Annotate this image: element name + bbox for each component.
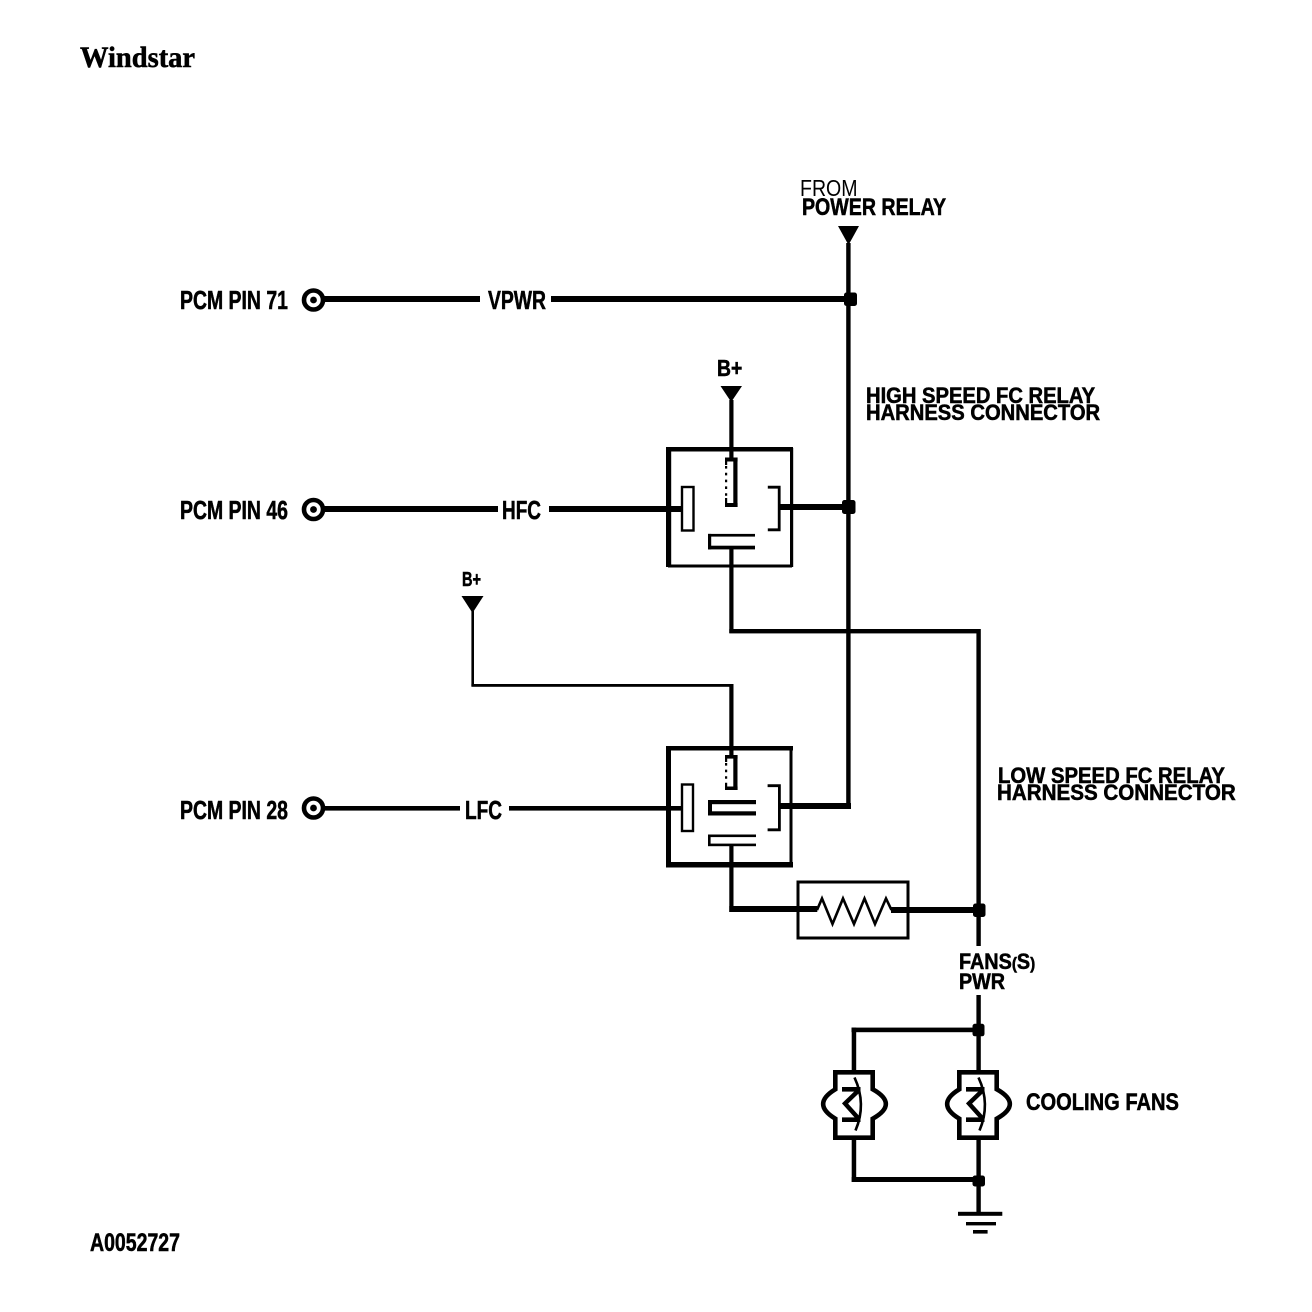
relay K1 left pin (HFC input) — [682, 487, 694, 531]
terminal: PCM PIN 46 center dot — [310, 506, 317, 513]
relay K2 left pin (LFC input) — [682, 785, 693, 832]
wire: B+ thin stem down — [471, 611, 474, 686]
resistor R1 box — [798, 882, 908, 938]
relay K1 right pin bracket — [768, 487, 779, 530]
wire: fans top horizontal — [852, 1028, 980, 1033]
label: VPWR — [488, 287, 546, 313]
label: PCM PIN 46 — [180, 497, 288, 523]
wire: LFC right segment into relay — [509, 806, 683, 811]
node: FANS PWR junction dot — [973, 904, 986, 918]
wire: relay K2 output to main vertical — [779, 803, 851, 809]
wire: main vertical HFC node down to low-speed relay — [846, 507, 850, 809]
wire: FANS PWR down (above label) — [976, 913, 980, 946]
label: HIGH SPEED FC RELAY — [866, 385, 1095, 407]
label: B+ (high speed) — [717, 357, 742, 380]
wire: fan M1 feed — [852, 1028, 857, 1071]
terminal: PCM PIN 71 ring — [304, 291, 323, 310]
label: A0052727 — [90, 1231, 180, 1256]
motor M2: right cooling fan — [947, 1072, 1010, 1137]
wire: resistor output to FANS PWR node — [891, 907, 979, 913]
motor M1: left cooling fan — [823, 1072, 886, 1137]
wire: main vertical VPWR node to HFC node — [846, 299, 850, 508]
power feed arrow (from power relay) — [838, 226, 859, 245]
relay K2 coil pin (dotted hidden side) — [725, 755, 738, 790]
label: FROM — [800, 177, 858, 200]
wire: HFC right segment into relay — [549, 506, 683, 512]
wire: into resistor — [729, 906, 817, 912]
node: fans split junction dot — [973, 1024, 985, 1037]
motor M2 winding M — [966, 1087, 985, 1122]
terminal: PCM PIN 28 ring — [304, 799, 323, 818]
node: HFC relay junction dot — [842, 500, 856, 514]
label: B+ (low speed) — [462, 570, 481, 590]
B+ arrow (high speed relay coil) — [721, 386, 743, 402]
label: FANS(S) — [959, 951, 1035, 973]
terminal: PCM PIN 28 center dot — [310, 805, 317, 812]
wire: VPWR left segment — [323, 296, 480, 302]
wire: power feed stem down to VPWR node — [846, 243, 850, 299]
wire: VPWR right segment — [551, 296, 851, 302]
node: ground junction dot — [973, 1176, 986, 1187]
terminal: PCM PIN 46 ring — [304, 500, 323, 519]
motor M1 winding M — [842, 1087, 861, 1122]
wire: right branch down to fans node — [976, 629, 980, 913]
wire: fan M2 return — [976, 1140, 980, 1180]
label: HARNESS CONNECTOR (high) — [866, 402, 1100, 424]
relay K1: high speed FC relay box — [666, 447, 793, 568]
terminal: PCM PIN 71 center dot — [310, 297, 317, 304]
label: PWR — [959, 971, 1005, 993]
label: LOW SPEED FC RELAY — [998, 765, 1225, 787]
node: VPWR junction dot — [844, 293, 857, 307]
relay K1 coil pin (dotted hidden side) — [725, 458, 738, 508]
resistor R1 zigzag — [817, 899, 892, 925]
label: PCM PIN 71 — [180, 287, 288, 313]
B+ arrow (low speed relay coil) — [462, 596, 484, 613]
relay K1 bottom pin — [708, 534, 755, 550]
wire: B+ thin run right — [471, 684, 732, 687]
label: COOLING FANS — [1026, 1091, 1179, 1115]
wire: ground stem — [976, 1180, 980, 1212]
relay K2 lower contact — [708, 835, 756, 847]
wire: relay K1 bottom pin down — [729, 549, 733, 633]
wire: fan M2 feed — [976, 1030, 980, 1070]
label: POWER RELAY — [802, 196, 946, 220]
wire: across to right branch — [729, 629, 980, 633]
label: HARNESS CONNECTOR (low) — [997, 782, 1236, 804]
wire: relay K2 bottom pin down — [729, 846, 733, 912]
label: LFC — [465, 797, 502, 823]
wire: HFC left segment — [323, 506, 498, 512]
label: HFC — [502, 497, 541, 523]
ground — [958, 1212, 1002, 1234]
title: Windstar — [80, 43, 195, 73]
label: PCM PIN 28 — [180, 797, 288, 823]
wire: relay K1 output to high-speed node — [779, 504, 851, 510]
relay K2 right pin bracket — [768, 786, 780, 830]
wire: B+ stem into relay coil pin — [729, 400, 733, 458]
wire: fans bottom horizontal — [852, 1177, 979, 1182]
wire: fan M1 return — [852, 1140, 857, 1182]
wire: down into relay K2 coil — [729, 684, 733, 758]
relay K2 middle contact bar — [708, 800, 756, 816]
wire: LFC left segment — [323, 806, 460, 811]
relay K2: low speed FC relay box — [666, 746, 793, 868]
wire: FANS PWR down (below label) — [976, 995, 980, 1032]
